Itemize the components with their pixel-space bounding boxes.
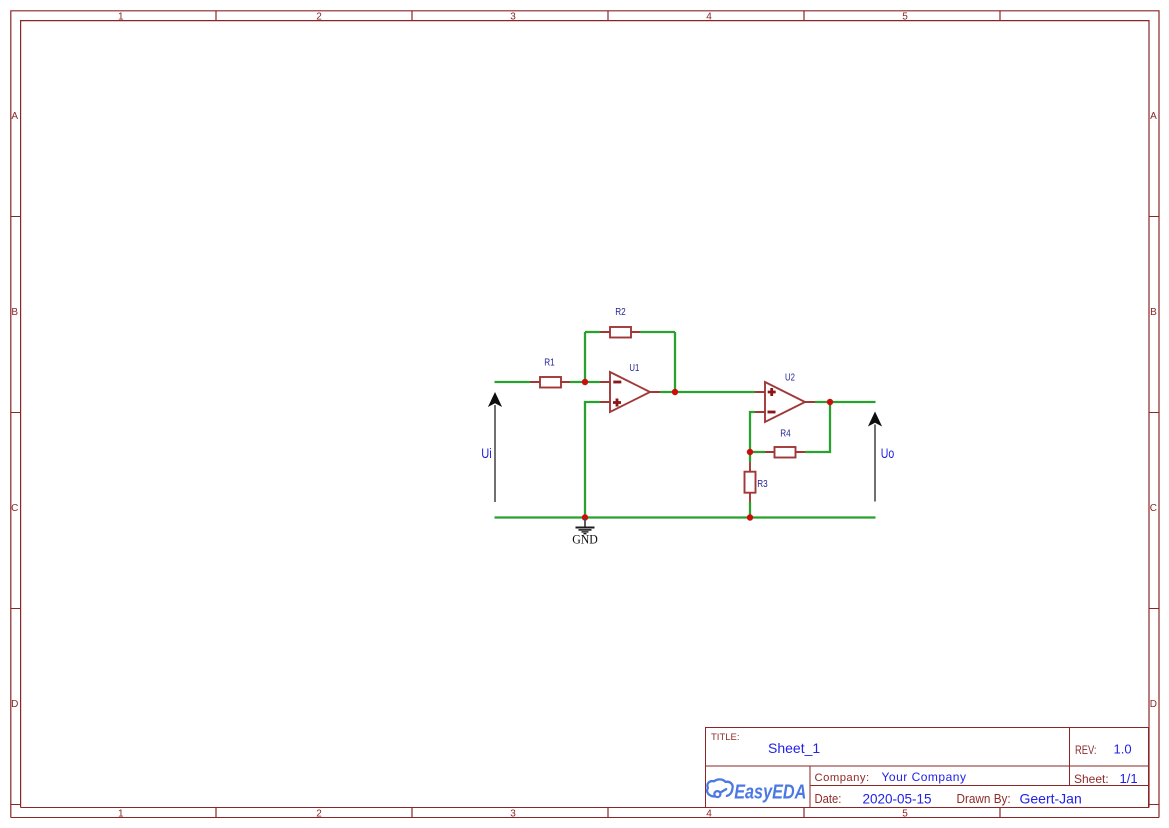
svg-text:R3: R3: [757, 477, 767, 489]
svg-text:2: 2: [316, 808, 322, 819]
svg-text:3: 3: [510, 808, 516, 819]
svg-text:C: C: [1150, 503, 1157, 514]
svg-text:A: A: [11, 111, 18, 122]
svg-text:1: 1: [118, 12, 124, 23]
svg-text:C: C: [11, 503, 18, 514]
svg-text:2020-05-15: 2020-05-15: [863, 792, 932, 807]
svg-text:Uo: Uo: [881, 446, 895, 462]
svg-text:REV:: REV:: [1075, 744, 1096, 757]
svg-text:R4: R4: [780, 426, 790, 438]
svg-text:2: 2: [316, 12, 322, 23]
svg-text:Sheet_1: Sheet_1: [768, 740, 820, 756]
svg-text:Sheet:: Sheet:: [1074, 772, 1109, 786]
svg-text:Company:: Company:: [815, 772, 870, 784]
svg-text:U1: U1: [629, 362, 639, 373]
svg-text:3: 3: [510, 12, 516, 23]
svg-text:5: 5: [902, 808, 908, 819]
svg-text:TITLE:: TITLE:: [711, 732, 740, 743]
svg-text:Your Company: Your Company: [882, 770, 967, 784]
svg-text:EasyEDA: EasyEDA: [734, 780, 806, 803]
svg-text:B: B: [11, 307, 18, 318]
svg-text:U2: U2: [785, 371, 795, 382]
svg-text:GND: GND: [572, 532, 598, 547]
svg-text:R1: R1: [544, 355, 554, 367]
svg-text:Drawn By:: Drawn By:: [957, 792, 1011, 806]
svg-text:1/1: 1/1: [1120, 771, 1138, 786]
svg-text:B: B: [1150, 307, 1157, 318]
svg-text:4: 4: [706, 12, 712, 23]
svg-text:R2: R2: [615, 305, 625, 317]
svg-text:D: D: [11, 699, 18, 710]
svg-text:D: D: [1150, 699, 1157, 710]
svg-text:5: 5: [902, 12, 908, 23]
svg-text:Geert-Jan: Geert-Jan: [1020, 791, 1082, 807]
svg-text:A: A: [1150, 111, 1157, 122]
svg-text:1: 1: [118, 808, 124, 819]
svg-text:Ui: Ui: [481, 446, 491, 461]
svg-text:4: 4: [706, 808, 712, 819]
svg-text:1.0: 1.0: [1114, 742, 1132, 757]
svg-text:Date:: Date:: [815, 791, 842, 806]
